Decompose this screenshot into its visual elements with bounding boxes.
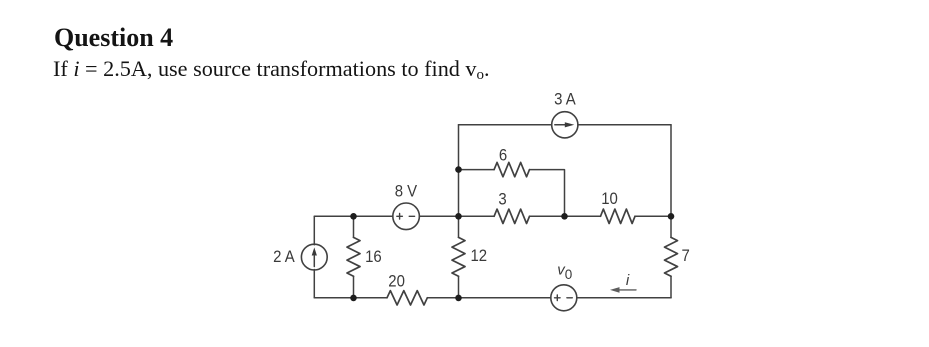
node dot central 6-branch	[455, 166, 462, 173]
wire central vertical lower	[458, 276, 460, 298]
wire 3 ohm to node B	[530, 215, 601, 217]
svg-text:16: 16	[365, 248, 382, 266]
wire v0 to bottom right	[577, 297, 671, 299]
wire 16 branch upper	[353, 216, 355, 237]
current source 3 A	[552, 112, 578, 138]
resistor 16 ohm	[347, 237, 360, 276]
wire central vertical upper	[458, 125, 460, 238]
current source 2 A	[301, 244, 327, 270]
wire right upper	[670, 125, 672, 238]
node dot B right of 3 ohm	[561, 213, 568, 220]
resistor 7 ohm	[665, 237, 678, 276]
title Question 4	[54, 25, 173, 51]
svg-text:0: 0	[565, 267, 573, 282]
wire 6 branch right	[530, 170, 565, 217]
node dot bottom central	[455, 295, 462, 302]
wire 20 ohm to central bottom node	[427, 297, 551, 299]
wire bottom left	[314, 297, 387, 299]
wire 16 branch lower	[353, 276, 355, 298]
svg-text:3: 3	[498, 191, 506, 209]
wire right lower	[670, 276, 672, 298]
wire 10 ohm to right node	[635, 215, 671, 217]
svg-text:3 A: 3 A	[554, 91, 576, 109]
wire top left segment	[459, 124, 552, 126]
wire top right segment	[578, 124, 671, 126]
wire left upper	[313, 216, 315, 244]
svg-text:8 V: 8 V	[395, 183, 418, 201]
wire 6 branch left	[459, 169, 495, 171]
resistor 6 ohm	[494, 162, 529, 176]
voltage source v0	[551, 285, 577, 311]
current arrow i	[610, 287, 636, 293]
resistor 10 ohm	[601, 209, 635, 223]
node dot central middle	[455, 213, 462, 220]
wire 8V to central node	[419, 215, 494, 217]
svg-text:12: 12	[470, 247, 487, 265]
node dot left of 8V	[350, 213, 357, 220]
svg-text:6: 6	[499, 147, 507, 165]
svg-text:20: 20	[388, 273, 405, 291]
question text	[53, 58, 490, 80]
svg-text:7: 7	[681, 247, 689, 265]
resistor 12 ohm	[452, 237, 465, 276]
wire left lower	[313, 270, 315, 298]
voltage source 8 V	[393, 203, 420, 230]
node dot bottom 16	[350, 295, 357, 302]
svg-text:10: 10	[601, 190, 618, 208]
resistor 3 ohm	[494, 209, 529, 223]
svg-text:2 A: 2 A	[273, 248, 295, 266]
resistor 20 ohm	[387, 291, 427, 305]
node dot right	[668, 213, 675, 220]
svg-text:i: i	[626, 272, 630, 289]
wire middle left (node A to 8V)	[314, 215, 393, 217]
